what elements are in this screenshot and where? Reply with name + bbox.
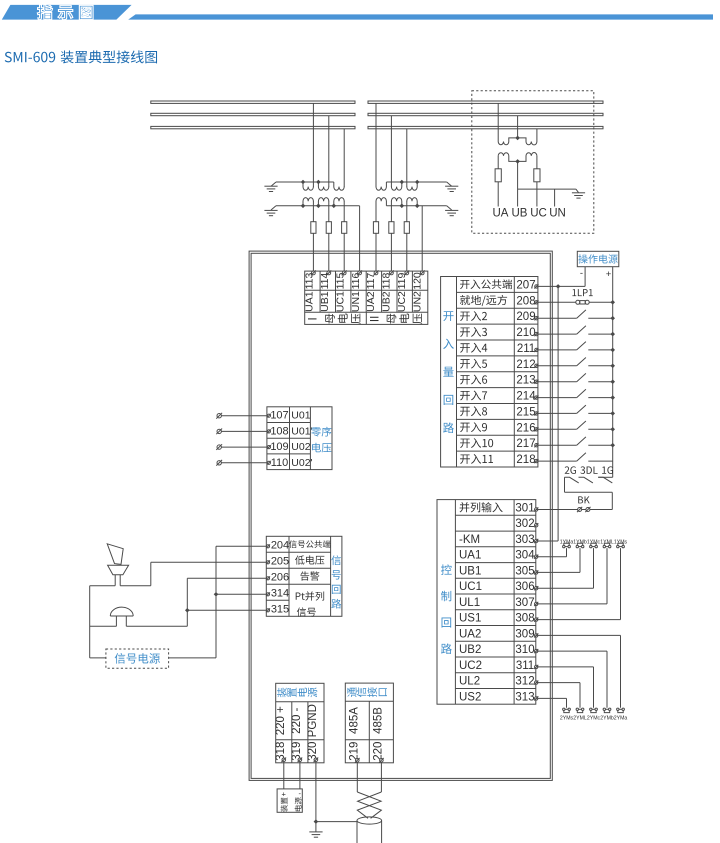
ground (PGND) bbox=[309, 831, 322, 833]
svg-text:305: 305 bbox=[515, 565, 534, 577]
node: Pt-parallel tap on 204 rail bbox=[214, 592, 219, 597]
svg-text:UL2: UL2 bbox=[459, 676, 480, 688]
node: +KM junction row 210 bbox=[610, 332, 615, 337]
bus II section phase 2 bbox=[368, 113, 603, 115]
switch contact (input 209 row 211) bbox=[536, 349, 576, 351]
fuse FU6 (bus II phase3) bbox=[406, 201, 408, 222]
bus II section phase 3 bbox=[368, 126, 603, 128]
wire 219 down bbox=[356, 762, 358, 792]
fuse FU7 (UA output) bbox=[497, 156, 499, 169]
wire terminal 315 lead bbox=[187, 609, 266, 611]
svg-text:UA2: UA2 bbox=[459, 628, 481, 640]
bus I section phase 1 bbox=[151, 101, 355, 103]
box 信号电源 (signal power, dashed) bbox=[106, 649, 169, 668]
box 装置电源 battery source bbox=[277, 789, 302, 812]
svg-text:UA1: UA1 bbox=[304, 291, 316, 312]
svg-text:306: 306 bbox=[515, 581, 534, 593]
wire bus-I phase2 drop bbox=[328, 116, 330, 187]
node: +KM junction row 209 bbox=[610, 316, 615, 321]
wire signal power left lead bbox=[90, 657, 106, 659]
wire phase B drop (dashed box) bbox=[517, 116, 519, 138]
svg-text:US2: US2 bbox=[459, 691, 481, 703]
wire 操作电源 negative to terminal 207 bbox=[584, 267, 586, 287]
wire secondary rail jog to ground (II) bbox=[447, 206, 452, 210]
terminal 210 (开入3) bbox=[460, 327, 487, 337]
wire bell rail bbox=[90, 625, 117, 627]
node: +KM junction row 216 bbox=[610, 427, 615, 432]
svg-text:311: 311 bbox=[516, 660, 534, 672]
plug BK bbox=[578, 496, 589, 503]
fuse FU1 (bus I phase1) bbox=[312, 201, 314, 222]
svg-text:219: 219 bbox=[349, 742, 361, 761]
svg-text:220: 220 bbox=[373, 742, 385, 761]
switch contact (input 213 row 215) bbox=[536, 412, 576, 414]
ground (secondary side, bus II PT) bbox=[445, 209, 458, 211]
twisted pair to SCADA bbox=[357, 792, 381, 818]
svg-text:1YMb: 1YMb bbox=[573, 540, 587, 546]
PT 1YH phase2 primary winding bbox=[318, 182, 328, 190]
label 告警 bbox=[300, 571, 319, 580]
PT V-connection secondary winding bbox=[498, 153, 537, 162]
svg-text:UN: UN bbox=[549, 208, 566, 220]
svg-text:U01: U01 bbox=[291, 410, 310, 422]
svg-text:308: 308 bbox=[515, 613, 534, 625]
label 信号公共端 bbox=[289, 540, 330, 548]
switch contact (input 210 row 212) bbox=[536, 365, 576, 367]
svg-text:I: I bbox=[308, 317, 320, 320]
wire terminal 314 lead bbox=[216, 593, 266, 595]
node: primary center tap bbox=[515, 136, 520, 141]
svg-text:U02: U02 bbox=[291, 441, 310, 453]
svg-text:II: II bbox=[370, 316, 382, 322]
svg-text:1YMs: 1YMs bbox=[614, 540, 628, 546]
PT 1YH secondary neutral rail bbox=[276, 205, 360, 207]
link 2YMs bbox=[563, 708, 565, 710]
wire terminal 110 lead bbox=[221, 462, 267, 464]
wire terminal 309 to 2YMa bbox=[536, 634, 620, 636]
wire terminal 305 to 1YMb bbox=[536, 571, 580, 573]
terminal 216 (开入9) bbox=[460, 422, 487, 432]
device SMI-609 enclosure (double border) bbox=[249, 251, 552, 780]
node: +KM junction row 211 bbox=[610, 348, 615, 353]
label 零序电压 (vertical col) bbox=[311, 427, 331, 437]
link 2YMb bbox=[603, 708, 605, 710]
wire 318 to station battery + bbox=[283, 762, 285, 789]
svg-text:315: 315 bbox=[271, 603, 289, 615]
svg-text:211: 211 bbox=[517, 343, 535, 355]
svg-text:+: + bbox=[606, 269, 612, 280]
wire terminal 310 to 2YMb bbox=[536, 650, 607, 652]
wire terminal 205 to speaker bbox=[151, 561, 267, 563]
wire UN2 neutral to terminal 120 bbox=[421, 206, 423, 271]
node: -KM tap on 207 wire bbox=[556, 284, 561, 289]
svg-text:PGND: PGND bbox=[307, 704, 319, 737]
svg-text:UA: UA bbox=[493, 208, 509, 220]
wire bus-I phase3 drop bbox=[343, 129, 345, 187]
wire UN1 neutral to terminal 116 bbox=[359, 206, 361, 271]
table: control circuit 控制回路 bbox=[437, 500, 536, 705]
PT 2YH phase1 primary winding bbox=[376, 182, 386, 190]
switch 1G bbox=[598, 477, 612, 483]
svg-text:218: 218 bbox=[516, 454, 535, 466]
table: signal circuit 信号回路 bbox=[266, 536, 342, 616]
svg-text:485B: 485B bbox=[373, 707, 385, 734]
wire terminal 307 to 1YML bbox=[536, 603, 607, 605]
wire UN output bbox=[554, 189, 556, 206]
node: PGND junction bbox=[314, 819, 319, 824]
svg-text:2YMs: 2YMs bbox=[560, 716, 574, 722]
wire terminal 206 to bell rail bbox=[187, 577, 266, 579]
link 2YMa bbox=[617, 708, 619, 710]
wire secondary rail jog to ground bbox=[271, 206, 276, 210]
svg-text:304: 304 bbox=[515, 550, 535, 562]
node: secondary rail junctions (II) bbox=[400, 204, 405, 209]
wire terminal 107 lead bbox=[221, 415, 267, 417]
PT 2YH secondary neutral rail bbox=[386, 205, 446, 207]
bell DL (half dome) bbox=[110, 607, 133, 616]
svg-text:301: 301 bbox=[515, 503, 534, 515]
terminal 301 (并列输入) bbox=[460, 502, 503, 512]
wire bus-I phase1 drop bbox=[312, 103, 314, 187]
wire +KM bus (positive rail) bbox=[612, 267, 614, 478]
node: +KM junction row 215 bbox=[610, 411, 615, 416]
svg-text:UC2: UC2 bbox=[396, 291, 408, 312]
wire terminal 109 lead bbox=[221, 446, 267, 448]
wire terminal 301 to BK plug bbox=[536, 509, 577, 511]
terminal 207 (开入公共端) bbox=[460, 279, 512, 289]
PT 1YH phase1 primary winding bbox=[303, 182, 313, 190]
svg-text:210: 210 bbox=[516, 327, 535, 339]
terminal 215 (开入8) bbox=[460, 406, 487, 416]
node: primary rail junctions bbox=[301, 180, 306, 185]
wire left rail down bbox=[89, 586, 91, 658]
terminal 209 (开入2) bbox=[460, 311, 487, 321]
svg-text:US1: US1 bbox=[459, 613, 481, 625]
wire UN grounded rail bbox=[518, 188, 576, 190]
switch contact (input 215 row 217) bbox=[536, 444, 576, 446]
svg-text:2YMb: 2YMb bbox=[600, 716, 614, 722]
title SMI-609 bbox=[5, 50, 157, 63]
wire switch group left rail bbox=[564, 477, 566, 492]
svg-text:110: 110 bbox=[271, 457, 289, 469]
PT 2YH phase1 secondary winding bbox=[376, 198, 386, 206]
header 通信接口 (rotated chars) bbox=[347, 687, 356, 697]
svg-text:-KM: -KM bbox=[459, 534, 480, 546]
fuse FU5 (bus II phase2) bbox=[390, 201, 392, 222]
svg-text:UA1: UA1 bbox=[459, 550, 481, 562]
switch 3DL bbox=[579, 477, 593, 483]
terminal stud (external, 110) bbox=[217, 461, 221, 465]
terminal stud (external, 108) bbox=[217, 429, 221, 433]
PT 1YH phase3 secondary winding bbox=[334, 198, 344, 206]
PT 2YH phase2 secondary winding bbox=[391, 198, 401, 206]
svg-text:220 -: 220 - bbox=[291, 707, 303, 733]
svg-text:UN1: UN1 bbox=[350, 291, 362, 312]
svg-text:209: 209 bbox=[516, 311, 535, 323]
svg-text:UC1: UC1 bbox=[335, 291, 347, 312]
fuse FU4 (bus II phase1) bbox=[375, 201, 377, 222]
banner bar 指示图 bbox=[2, 5, 132, 20]
ground (primary side, bus I PT) bbox=[264, 185, 277, 187]
terminal 218 (开入11) bbox=[460, 454, 493, 464]
wire switch group to BK bbox=[611, 492, 613, 509]
svg-text:310: 310 bbox=[515, 644, 534, 656]
svg-text:UB2: UB2 bbox=[381, 291, 393, 312]
svg-text:UL1: UL1 bbox=[459, 597, 480, 609]
svg-text:2YML: 2YML bbox=[573, 716, 587, 722]
terminal 211 (开入4) bbox=[460, 343, 487, 353]
svg-text:215: 215 bbox=[516, 406, 535, 418]
svg-text:302: 302 bbox=[515, 518, 534, 530]
svg-text:307: 307 bbox=[515, 597, 534, 609]
terminal 217 (开入10) bbox=[460, 438, 493, 448]
svg-text:108: 108 bbox=[270, 425, 288, 437]
svg-text:204: 204 bbox=[271, 539, 289, 551]
node: secondary center tap bbox=[515, 159, 520, 164]
terminal 213 (开入6) bbox=[460, 375, 487, 385]
header 装置电源 (rotated chars) bbox=[277, 688, 287, 698]
PT 2YH primary neutral rail bbox=[386, 181, 446, 183]
terminal stud (external, 109) bbox=[217, 445, 221, 449]
label 3DL bbox=[580, 466, 597, 474]
svg-text:205: 205 bbox=[271, 555, 289, 567]
ground (secondary side, bus I PT) bbox=[264, 209, 277, 211]
node: +KM junction row 208 bbox=[610, 300, 615, 305]
svg-text:2YMc: 2YMc bbox=[587, 716, 601, 722]
wire phase C drop (dashed box) bbox=[536, 129, 538, 142]
svg-text:109: 109 bbox=[270, 441, 288, 453]
label column 信号回路 (vertical) bbox=[331, 555, 341, 565]
wire terminal 108 lead bbox=[221, 430, 267, 432]
wire terminal 311 to 2YMc bbox=[536, 666, 593, 668]
terminal stud (external, 107) bbox=[217, 414, 221, 418]
svg-text:UB1: UB1 bbox=[459, 565, 481, 577]
svg-text:1YMa: 1YMa bbox=[560, 540, 574, 546]
svg-text:220 +: 220 + bbox=[275, 706, 287, 735]
node: +KM junction row 214 bbox=[610, 395, 615, 400]
switch contact (input 207 row 209) bbox=[536, 317, 576, 319]
svg-text:313: 313 bbox=[515, 691, 534, 703]
link 2YML bbox=[576, 708, 578, 710]
PT 1YH primary neutral rail bbox=[276, 181, 334, 183]
svg-text:208: 208 bbox=[516, 295, 535, 307]
wire phase A drop (dashed box) bbox=[497, 103, 499, 141]
svg-text:216: 216 bbox=[516, 422, 535, 434]
ground (primary side, bus II PT) bbox=[445, 185, 458, 187]
fuse FU8 (UC output) bbox=[536, 156, 538, 169]
wire rail jog to ground bbox=[271, 182, 276, 186]
switch contact (input 208 row 210) bbox=[536, 333, 576, 335]
switch contact (input 211 row 213) bbox=[536, 381, 576, 383]
svg-text:212: 212 bbox=[516, 359, 535, 371]
svg-text:217: 217 bbox=[516, 438, 535, 450]
terminal 214 (开入7) bbox=[460, 390, 487, 400]
PT 1YH phase1 secondary winding bbox=[303, 198, 313, 206]
svg-text:214: 214 bbox=[516, 391, 536, 403]
cable shield (screen) bbox=[357, 817, 382, 824]
label column 控制回路 (vertical) bbox=[441, 564, 452, 574]
terminal 212 (开入5) bbox=[460, 359, 487, 369]
PT 1YH phase3 primary winding bbox=[334, 182, 344, 190]
svg-text:107: 107 bbox=[270, 410, 288, 422]
label column 开入量回路 (vertical) bbox=[443, 311, 453, 321]
dashed enclosure (line PT unit) bbox=[472, 91, 594, 233]
table: zero sequence voltage 零序电压 bbox=[267, 407, 332, 470]
link 2YMc bbox=[590, 708, 592, 710]
wire PGND to cable shield bbox=[316, 821, 357, 823]
svg-text:303: 303 bbox=[515, 534, 534, 546]
wire terminal 312 to 2YML bbox=[536, 682, 580, 684]
svg-text:U02': U02' bbox=[291, 457, 312, 469]
label 2G bbox=[565, 466, 576, 474]
fuse FU3 (bus I phase3) bbox=[343, 201, 345, 222]
svg-text:UC: UC bbox=[530, 208, 547, 220]
svg-text:U01': U01' bbox=[291, 425, 312, 437]
wire 220 down bbox=[380, 762, 382, 792]
terminal strip: bus voltage inputs bbox=[305, 271, 428, 324]
label Pt并列信号 bbox=[296, 591, 324, 600]
wire +KM bus corner bbox=[598, 476, 613, 478]
svg-text:1YMc: 1YMc bbox=[587, 540, 601, 546]
switch contact (input 214 row 216) bbox=[536, 428, 576, 430]
svg-text:UA2: UA2 bbox=[365, 291, 377, 312]
box 操作电源 (operating power) bbox=[577, 251, 619, 266]
wire terminal 308 to 1YMs bbox=[536, 619, 620, 621]
svg-text:312: 312 bbox=[515, 676, 534, 688]
svg-text:314: 314 bbox=[271, 587, 289, 599]
bus II section phase 1 bbox=[368, 101, 603, 103]
svg-text:206: 206 bbox=[271, 571, 289, 583]
link 1LP1 (strap on 208) bbox=[536, 301, 577, 303]
wire jog to ground bbox=[576, 189, 579, 193]
fuse FU2 (bus I phase2) bbox=[328, 201, 330, 222]
terminal 208 (就地/远方) bbox=[460, 295, 507, 306]
wire bus-II phase3 drop bbox=[406, 129, 408, 187]
svg-text:+: + bbox=[282, 789, 287, 798]
PT V-connection primary winding bbox=[498, 138, 537, 145]
table: comm interface 通信接口 bbox=[345, 683, 393, 763]
svg-text:UB1: UB1 bbox=[319, 291, 331, 312]
svg-text:309: 309 bbox=[515, 628, 534, 640]
wire -KM from 207 junction to terminal 303 bbox=[557, 286, 559, 541]
PT 1YH phase2 secondary winding bbox=[318, 198, 328, 206]
node: 315 tap bbox=[185, 608, 190, 613]
wire UB output bbox=[517, 161, 519, 206]
wire bus-II phase1 drop bbox=[375, 103, 377, 187]
svg-text:485A: 485A bbox=[349, 707, 361, 734]
svg-text:213: 213 bbox=[516, 375, 535, 387]
node: +KM junction row 212 bbox=[610, 364, 615, 369]
node: primary rail junctions (II) bbox=[400, 180, 405, 185]
svg-text:UB2: UB2 bbox=[459, 644, 481, 656]
wire terminal 313 to 2YMs bbox=[536, 697, 566, 699]
svg-text:UB: UB bbox=[512, 208, 528, 220]
switch 2G bbox=[565, 477, 579, 483]
svg-text:UC1: UC1 bbox=[459, 581, 482, 593]
svg-text:1YML: 1YML bbox=[600, 540, 614, 546]
node: +KM junction row 213 bbox=[610, 379, 615, 384]
switch contact (input 212 row 214) bbox=[536, 397, 576, 399]
label 低电压 bbox=[295, 555, 324, 564]
table: binary input circuit 开入量回路 bbox=[441, 277, 538, 468]
node: +KM junction row 217 bbox=[610, 443, 615, 448]
node: secondary rail junctions bbox=[301, 204, 306, 209]
wire 320 PGND to earth bbox=[315, 762, 317, 832]
PT 2YH phase3 primary winding bbox=[407, 182, 417, 190]
bus I section phase 3 bbox=[151, 126, 355, 128]
PT 2YH phase3 secondary winding bbox=[407, 198, 417, 206]
svg-text:207: 207 bbox=[516, 279, 535, 291]
svg-text:-: - bbox=[580, 268, 583, 279]
label 1G bbox=[602, 466, 613, 474]
svg-text:UN2: UN2 bbox=[411, 291, 423, 312]
PT 2YH phase2 primary winding bbox=[391, 182, 401, 190]
switch contact (input 216 row 218) bbox=[536, 460, 576, 462]
wire terminal 304 to 1YMa bbox=[536, 556, 566, 558]
ground (V-PT neutral) bbox=[572, 192, 585, 194]
bus I section phase 2 bbox=[151, 113, 355, 115]
wire terminal 306 to 1YMc bbox=[536, 587, 593, 589]
wire bus-II phase2 drop bbox=[390, 116, 392, 187]
wire rail jog to ground bbox=[447, 182, 452, 186]
wire speaker rail bbox=[90, 585, 116, 587]
wire 319 to station battery - bbox=[299, 762, 301, 789]
speaker HA (horn) bbox=[107, 544, 123, 565]
wire terminal 204 to signal power (+) rail bbox=[216, 545, 266, 547]
svg-text:UC2: UC2 bbox=[459, 660, 482, 672]
table: device power 装置电源 bbox=[276, 683, 324, 763]
svg-text:2YMa: 2YMa bbox=[614, 716, 628, 722]
